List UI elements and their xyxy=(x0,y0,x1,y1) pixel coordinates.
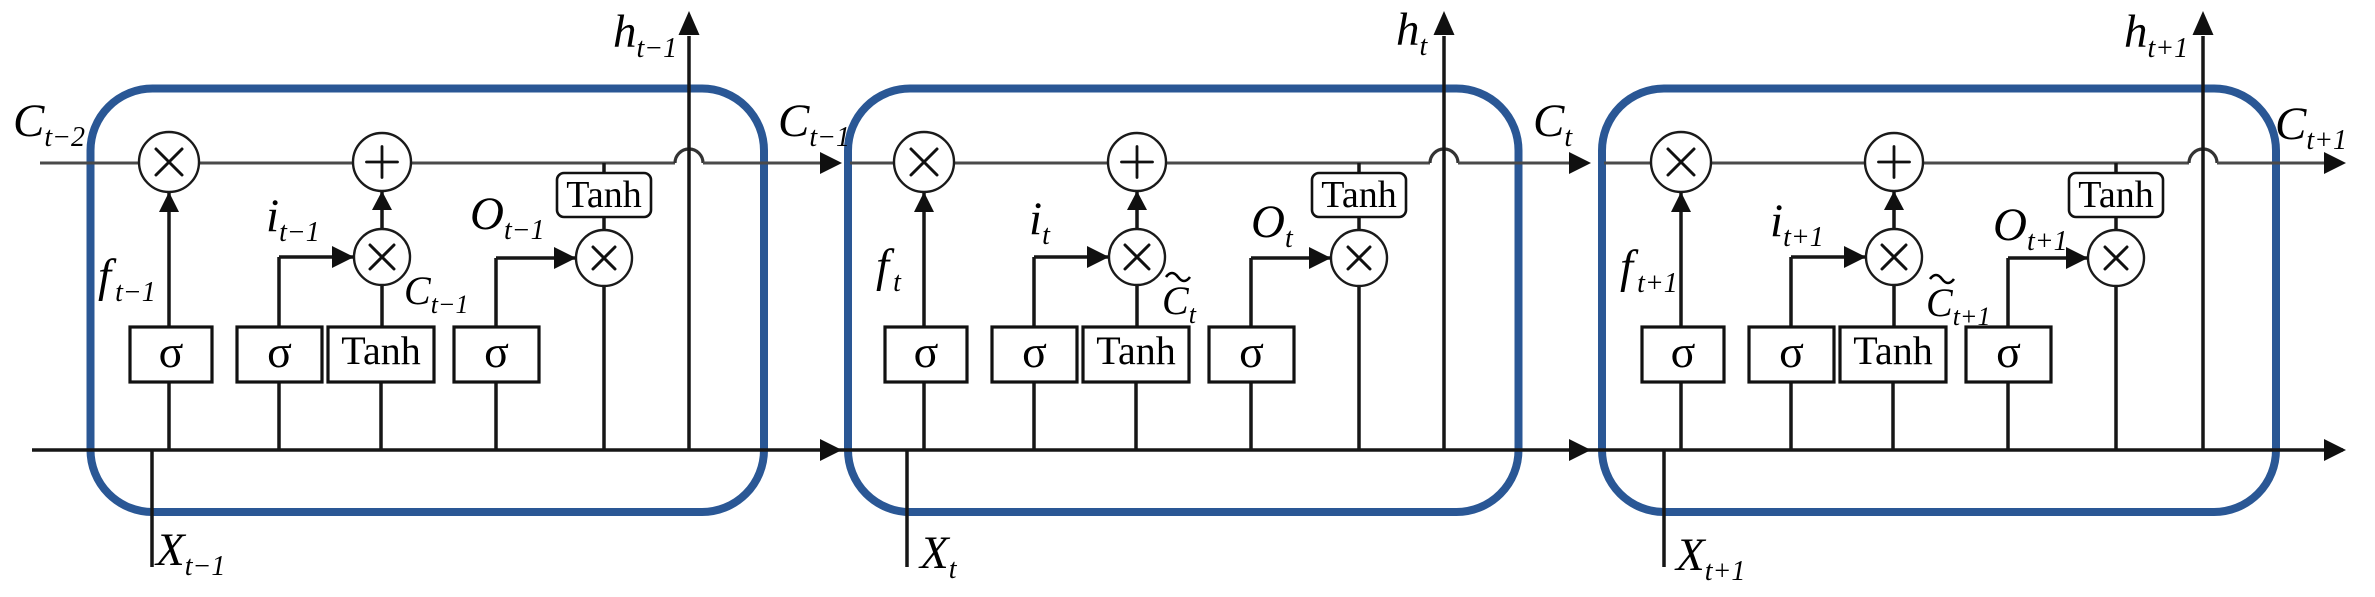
wire forget gate column cell 2 xyxy=(922,163,926,450)
wire C segment into cell 3 xyxy=(1604,162,2189,165)
wire output gate riser cell 3 xyxy=(2006,258,2010,329)
wire output gate horizontal cell 3 xyxy=(2008,256,2088,260)
arrowhead into output multiply cell 3 xyxy=(2066,247,2088,269)
sigma gate box 3 (output) cell 3 xyxy=(1966,327,2051,382)
tanh box (output squash) cell 3 xyxy=(2069,173,2163,217)
sigma gate box 3 (output) cell 1 xyxy=(454,327,539,382)
wire output gate horizontal cell 1 xyxy=(496,256,576,260)
wire hidden state h vertical cell 1 xyxy=(687,36,691,450)
wire tanh/output column cell 1 xyxy=(602,163,606,450)
wire output gate riser cell 2 xyxy=(1249,258,1253,329)
add node cell 1 xyxy=(353,133,411,191)
arrowhead h_t output cell 2 xyxy=(1434,11,1455,35)
wire forget gate column cell 3 xyxy=(1679,163,1683,450)
sigma gate box 1 (forget) cell 2 xyxy=(885,327,967,382)
arrowhead h_t−1 output cell 1 xyxy=(679,11,700,35)
wire input gate riser cell 2 xyxy=(1032,257,1036,329)
wire input/add column cell 1 xyxy=(380,163,384,329)
sigma gate box 2 (input) cell 2 xyxy=(992,327,1077,382)
wire sigma2 to bottom cell 3 xyxy=(1789,382,1793,450)
sigma gate box 2 (input) cell 1 xyxy=(237,327,322,382)
arrowhead into output multiply cell 2 xyxy=(1309,247,1331,269)
wire C segment out of cell 3 xyxy=(2217,162,2342,165)
arrowhead into input multiply cell 1 xyxy=(332,246,354,268)
arrowhead h_t+1 output cell 3 xyxy=(2193,11,2214,35)
wire tanh to bottom cell 3 xyxy=(1891,382,1895,450)
wire input gate riser cell 3 xyxy=(1789,257,1793,329)
arrowhead into add node cell 1 xyxy=(372,191,392,210)
svg-text:σ: σ xyxy=(1022,326,1047,377)
arrowhead into input multiply cell 3 xyxy=(1844,246,1866,268)
wire sigma3 to bottom cell 2 xyxy=(1249,382,1253,450)
wire tanh/output column cell 3 xyxy=(2114,163,2118,450)
arrowhead into forget multiply cell 3 xyxy=(1671,192,1691,212)
arrowhead bottom line after cell 2 xyxy=(1569,439,1591,461)
wire X input stub cell 3 xyxy=(1662,450,1666,567)
wire output gate riser cell 1 xyxy=(494,258,498,329)
arrowhead bottom line after cell 3 xyxy=(2324,439,2346,461)
wire tanh to bottom cell 1 xyxy=(379,382,383,450)
multiply node (input) cell 1 xyxy=(354,229,410,285)
tanh box (output squash) cell 1 xyxy=(557,173,651,217)
add node cell 3 xyxy=(1865,133,1923,191)
wire sigma2 to bottom cell 1 xyxy=(277,382,281,450)
arrowhead C line after cell 3 xyxy=(2324,152,2346,174)
svg-text:σ: σ xyxy=(914,326,939,377)
sigma gate box 1 (forget) cell 1 xyxy=(130,327,212,382)
svg-text:Tanh: Tanh xyxy=(566,174,641,216)
sigma gate box 3 (output) cell 2 xyxy=(1209,327,1294,382)
multiply node (forget) cell 3 xyxy=(1651,132,1711,192)
wire X input stub cell 2 xyxy=(905,450,909,567)
arrowhead bottom line after cell 1 xyxy=(820,439,842,461)
svg-text:Tanh: Tanh xyxy=(2078,174,2153,216)
wire input/add column cell 3 xyxy=(1892,163,1896,329)
wire tanh/output column cell 2 xyxy=(1357,163,1361,450)
bottom input line (h path) xyxy=(32,448,2343,452)
multiply node (input) cell 2 xyxy=(1109,229,1165,285)
multiply node (forget) cell 1 xyxy=(139,132,199,192)
wire C segment into cell 1 xyxy=(40,162,675,165)
wire C segment into cell 2 xyxy=(850,162,1430,165)
multiply node (forget) cell 2 xyxy=(894,132,954,192)
tanh box (candidate) cell 2 xyxy=(1083,327,1189,382)
wire input gate riser cell 1 xyxy=(277,257,281,329)
tanh box (candidate) cell 3 xyxy=(1840,327,1946,382)
arrowhead into forget multiply cell 2 xyxy=(914,192,934,212)
multiply node (output) cell 2 xyxy=(1331,230,1387,286)
svg-text:Tanh: Tanh xyxy=(341,328,420,373)
sigma gate box 2 (input) cell 3 xyxy=(1749,327,1834,382)
svg-text:σ: σ xyxy=(484,326,509,377)
svg-text:σ: σ xyxy=(1996,326,2021,377)
wire output gate horizontal cell 2 xyxy=(1251,256,1331,260)
wire input gate horizontal cell 1 xyxy=(279,255,354,259)
wire forget gate column cell 1 xyxy=(167,163,171,450)
wire hidden state h vertical cell 2 xyxy=(1442,36,1446,450)
wire sigma3 to bottom cell 3 xyxy=(2006,382,2010,450)
wire input/add column cell 2 xyxy=(1135,163,1139,329)
wire sigma3 to bottom cell 1 xyxy=(494,382,498,450)
arrowhead into output multiply cell 1 xyxy=(554,247,576,269)
multiply node (output) cell 1 xyxy=(576,230,632,286)
wire X input stub cell 1 xyxy=(150,450,154,567)
arrowhead into add node cell 2 xyxy=(1127,191,1147,210)
wire tanh to bottom cell 2 xyxy=(1134,382,1138,450)
arrowhead C line after cell 2 xyxy=(1569,152,1591,174)
svg-text:σ: σ xyxy=(267,326,292,377)
arrowhead into input multiply cell 2 xyxy=(1087,246,1109,268)
wire sigma2 to bottom cell 2 xyxy=(1032,382,1036,450)
wire C segment out of cell 2 xyxy=(1458,162,1587,165)
jump-over bump on C line, cell 3 xyxy=(2189,149,2217,163)
LSTM cell t+1 body (rounded blue border) xyxy=(1602,89,2276,513)
svg-text:σ: σ xyxy=(1779,326,1804,377)
tanh box (candidate) cell 1 xyxy=(328,327,434,382)
svg-text:Tanh: Tanh xyxy=(1853,328,1932,373)
jump-over bump on C line, cell 1 xyxy=(675,149,703,163)
arrowhead into forget multiply cell 1 xyxy=(159,192,179,212)
add node cell 2 xyxy=(1108,133,1166,191)
svg-text:Tanh: Tanh xyxy=(1096,328,1175,373)
svg-text:σ: σ xyxy=(1671,326,1696,377)
tanh box (output squash) cell 2 xyxy=(1312,173,1406,217)
arrowhead C line after cell 1 xyxy=(820,152,842,174)
sigma gate box 1 (forget) cell 3 xyxy=(1642,327,1724,382)
LSTM cell t-1 body (rounded blue border) xyxy=(91,89,765,513)
svg-text:Tanh: Tanh xyxy=(1321,174,1396,216)
jump-over bump on C line, cell 2 xyxy=(1430,149,1458,163)
arrowhead into add node cell 3 xyxy=(1884,191,1904,210)
multiply node (output) cell 3 xyxy=(2088,230,2144,286)
wire input gate horizontal cell 2 xyxy=(1034,255,1109,259)
wire input gate horizontal cell 3 xyxy=(1791,255,1866,259)
svg-text:σ: σ xyxy=(1239,326,1264,377)
LSTM cell t body (rounded blue border) xyxy=(848,89,1519,513)
svg-text:σ: σ xyxy=(159,326,184,377)
multiply node (input) cell 3 xyxy=(1866,229,1922,285)
wire C segment out of cell 1 xyxy=(703,162,838,165)
wire hidden state h vertical cell 3 xyxy=(2201,36,2205,450)
